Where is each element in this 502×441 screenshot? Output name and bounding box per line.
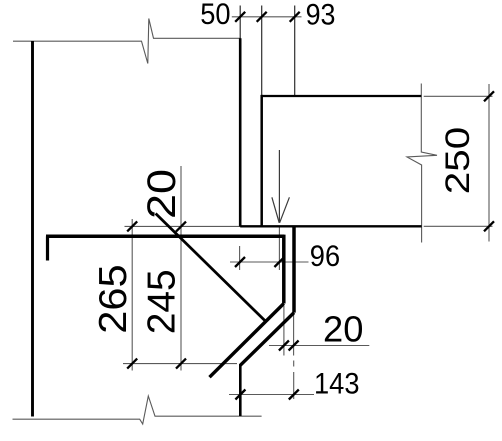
tick 96 left [235, 257, 245, 267]
slab top line [262, 95, 422, 97]
flashing inner vertical [282, 235, 286, 304]
250 dimension line [488, 84, 490, 242]
svg-text:50: 50 [200, 0, 230, 31]
tick 250 top [484, 91, 494, 101]
tick top dim 2 [257, 12, 267, 22]
extension line at slab-bottom level to the left [125, 225, 241, 227]
tick 265 top [127, 221, 137, 231]
top dimension line 50/93 [232, 16, 302, 18]
265 dimension line [131, 219, 133, 371]
245 dimension line [180, 166, 182, 371]
svg-text:96: 96 [310, 241, 340, 273]
tick 143 right [289, 390, 299, 400]
wall left edge [31, 41, 34, 417]
tick 20 bottom right [289, 341, 299, 351]
tick 245 bottom [176, 359, 186, 369]
tick 245 top / 20 top [176, 222, 186, 232]
96 dimension line [230, 261, 309, 263]
96 left extension [239, 246, 241, 270]
leader arrow head right [280, 197, 290, 223]
svg-text:265: 265 [92, 264, 135, 333]
143 right extension dashes [293, 361, 295, 367]
leader arrow head left [272, 197, 279, 223]
svg-text:143: 143 [314, 369, 360, 401]
slab break line [407, 84, 437, 243]
96 right extension / arrow line continuation [278, 227, 280, 270]
flashing inner diagonal [210, 304, 284, 378]
tick 143 left [235, 390, 245, 400]
slab left edge [260, 95, 263, 227]
extension line x294 up [294, 6, 296, 96]
wall top break line [13, 19, 241, 64]
leader arrow shaft [278, 150, 280, 223]
extension line wall right edge top [239, 6, 241, 39]
svg-text:93: 93 [306, 0, 336, 31]
wall right edge upper [239, 38, 242, 226]
tick top dim 1 [235, 12, 245, 22]
extension line slab left edge up [261, 6, 263, 96]
wall right edge lower [239, 364, 242, 416]
250 dimension: top extension [424, 95, 493, 97]
wall bottom break line [13, 396, 262, 424]
flashing left hook [46, 236, 49, 260]
20 bottom dimension line [269, 345, 369, 347]
250 dimension: bottom extension [424, 225, 493, 227]
tick top dim 3 [290, 12, 300, 22]
flashing outer diagonal [240, 313, 294, 366]
slab bottom ledge line [240, 225, 421, 227]
20 bottom extension left [283, 306, 285, 356]
tick 250 bottom [484, 221, 494, 231]
tick 20 bottom left [279, 341, 289, 351]
tick 265 bottom [127, 359, 137, 369]
tick 96 right [274, 257, 284, 267]
svg-text:250: 250 [439, 127, 477, 195]
143 dimension line [229, 394, 314, 396]
flashing top line [46, 235, 284, 239]
svg-text:20: 20 [323, 308, 363, 349]
big single diagonal [156, 214, 265, 321]
extension line bottom of 265/245 [123, 363, 237, 365]
20 bottom extension right [293, 315, 295, 356]
svg-text:20: 20 [140, 169, 184, 219]
flashing outer vertical [292, 226, 296, 312]
svg-text:245: 245 [141, 269, 184, 334]
